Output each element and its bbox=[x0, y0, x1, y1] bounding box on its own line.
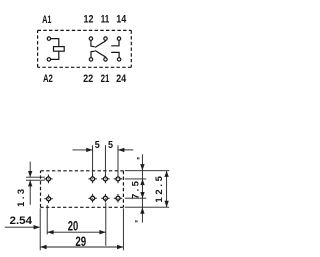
dim 20 line bbox=[47, 231, 106, 233]
svg-text:2.54: 2.54 bbox=[10, 215, 33, 227]
dim line 5-5 left arrow line bbox=[73, 149, 93, 151]
NO contact 14 bbox=[111, 40, 119, 46]
moving contact arm 21 bbox=[95, 51, 105, 58]
dim 1.3 upper leader bbox=[29, 162, 31, 177]
coil K1 bbox=[54, 47, 65, 52]
hole 14 bbox=[114, 175, 122, 184]
dashed outline box bbox=[38, 30, 132, 67]
pin 14 terminal circle bbox=[117, 37, 120, 40]
footnote tick marks top bbox=[138, 157, 139, 159]
NC contact 22 bbox=[91, 51, 95, 58]
arrowhead 5-5 left bbox=[86, 148, 92, 152]
hole 11 bbox=[101, 175, 109, 184]
svg-text:5: 5 bbox=[95, 140, 100, 151]
dim 1.3 tick lower bbox=[26, 179, 45, 181]
extension line box right column bbox=[122, 208, 124, 250]
footnote tick marks bottom bbox=[136, 220, 137, 222]
pin 11 terminal circle bbox=[104, 37, 107, 40]
hole 21 bbox=[101, 194, 109, 203]
hole A2 bbox=[44, 195, 52, 204]
arrowhead 29 right bbox=[117, 245, 123, 249]
svg-text:11: 11 bbox=[101, 13, 110, 25]
hole 24 bbox=[114, 194, 122, 203]
right side extension lines bbox=[125, 154, 169, 222]
hole 12 bbox=[88, 175, 96, 184]
svg-text:21: 21 bbox=[101, 73, 110, 85]
arrowhead 2.54 bbox=[34, 225, 40, 229]
pin 12 terminal circle bbox=[89, 37, 92, 40]
moving contact arm 11 bbox=[95, 40, 105, 47]
extension line center contact column bbox=[105, 203, 107, 246]
svg-text:1.3: 1.3 bbox=[16, 186, 26, 206]
dim 1.3 tick upper bbox=[26, 176, 45, 178]
svg-text:12.5: 12.5 bbox=[154, 173, 165, 202]
hole A1 bbox=[44, 175, 52, 184]
pin 22 terminal circle bbox=[89, 58, 92, 61]
dim 1.3 lower leader bbox=[29, 180, 31, 204]
arrowhead 1.3 up bbox=[28, 180, 32, 186]
footnote arrowhead top bbox=[140, 164, 144, 170]
arrowhead 1.3 down bbox=[28, 171, 32, 177]
arrowhead 7.5 top bbox=[140, 179, 144, 185]
extension line top hole row bbox=[125, 178, 146, 180]
extension line box left column bbox=[39, 208, 41, 250]
arrowhead 5-5 right bbox=[118, 148, 124, 152]
arrowhead 29 left bbox=[40, 245, 46, 249]
dim line 5-5 right arrow line bbox=[118, 149, 133, 151]
arrowhead 12.5 bottom bbox=[164, 201, 168, 207]
svg-text:12: 12 bbox=[84, 13, 94, 25]
relay body dashed outline bbox=[41, 171, 124, 208]
bottom extension lines bbox=[5, 203, 124, 250]
svg-text:7.5: 7.5 bbox=[131, 179, 142, 199]
dim 12.5 line bbox=[166, 171, 168, 208]
svg-text:24: 24 bbox=[116, 73, 126, 85]
dim 2.54 leader line bbox=[5, 226, 40, 228]
pin A2 terminal circle bbox=[47, 58, 50, 61]
footnote arrow lower leader bbox=[141, 198, 143, 222]
extension tick pin11 column bbox=[104, 145, 106, 176]
pin A1 terminal circle bbox=[47, 37, 50, 40]
NO contact 24 bbox=[111, 52, 119, 57]
dim 7.5 line bbox=[142, 179, 144, 198]
NC contact 12 bbox=[91, 40, 95, 47]
extension line coil pin column bbox=[46, 205, 48, 235]
arrowhead 12.5 top bbox=[164, 171, 168, 177]
svg-text:A2: A2 bbox=[43, 73, 53, 85]
svg-text:14: 14 bbox=[116, 13, 126, 25]
pin 24 terminal circle bbox=[117, 58, 120, 61]
dimension 5/5 pitch bbox=[73, 145, 134, 176]
svg-text:20: 20 bbox=[68, 218, 79, 233]
footnote arrow upper leader bbox=[141, 154, 143, 179]
svg-text:29: 29 bbox=[75, 234, 86, 250]
arrowhead 20 right bbox=[99, 230, 105, 234]
wire A1 to coil bbox=[51, 39, 59, 47]
hole 22 bbox=[88, 194, 96, 203]
svg-text:5: 5 bbox=[108, 140, 113, 151]
extension line box bottom bbox=[125, 206, 169, 208]
extension line bottom hole row bbox=[125, 197, 146, 199]
arrowhead 20 left bbox=[47, 230, 53, 234]
extension line box top bbox=[125, 170, 169, 172]
svg-text:22: 22 bbox=[83, 73, 93, 85]
dimension 1.3 hole dia bbox=[26, 162, 45, 205]
pin 21 terminal circle bbox=[104, 58, 107, 61]
svg-text:A1: A1 bbox=[42, 14, 51, 26]
footnote arrowhead bottom bbox=[140, 207, 144, 213]
wire A2 to coil bbox=[51, 51, 59, 59]
dim 29 line bbox=[40, 246, 123, 248]
extension tick pin14 column bbox=[117, 145, 119, 176]
extension tick pin12 column bbox=[92, 145, 94, 176]
arrowhead 7.5 bottom bbox=[140, 192, 144, 198]
